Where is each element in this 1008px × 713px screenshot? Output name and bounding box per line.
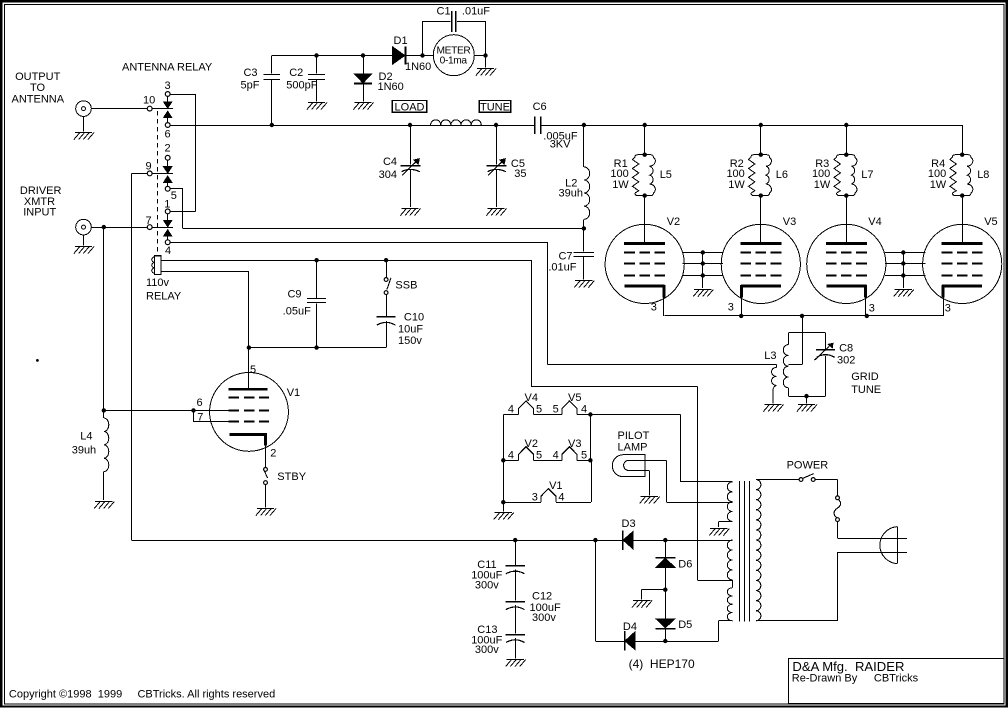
svg-text:5: 5 (536, 449, 542, 461)
svg-text:300v: 300v (475, 579, 499, 591)
svg-text:C8: C8 (839, 343, 853, 355)
svg-text:7: 7 (146, 215, 152, 227)
svg-text:(4) HEP170: (4) HEP170 (629, 657, 695, 671)
svg-text:INPUT: INPUT (23, 207, 56, 219)
svg-text:7: 7 (197, 411, 203, 423)
svg-text:1N60: 1N60 (405, 61, 431, 73)
svg-text:9: 9 (146, 160, 152, 172)
svg-text:100: 100 (928, 168, 946, 180)
svg-text:1W: 1W (930, 179, 947, 191)
svg-text:PILOT: PILOT (618, 430, 650, 442)
svg-text:300v: 300v (532, 612, 556, 624)
svg-text:V5: V5 (568, 392, 581, 404)
svg-text:C12: C12 (532, 591, 552, 603)
svg-text:4: 4 (508, 449, 514, 461)
svg-text:110v: 110v (146, 277, 170, 289)
svg-text:1: 1 (164, 198, 170, 210)
svg-text:1W: 1W (814, 179, 831, 191)
svg-text:D1: D1 (394, 35, 408, 47)
svg-text:5: 5 (581, 449, 587, 461)
svg-text:RELAY: RELAY (146, 291, 182, 303)
svg-text:Copyright ©1998 1999 CBTr: Copyright ©1998 1999 CBTricks. All right… (9, 688, 275, 700)
svg-text:3KV: 3KV (550, 139, 571, 151)
svg-text:SSB: SSB (395, 279, 417, 291)
svg-text:.01uF: .01uF (462, 5, 490, 17)
svg-text:D5: D5 (678, 619, 692, 631)
svg-text:4: 4 (165, 245, 171, 257)
svg-text:C9: C9 (287, 289, 301, 301)
svg-text:L6: L6 (776, 169, 788, 181)
svg-text:5: 5 (250, 364, 256, 376)
svg-text:STBY: STBY (277, 471, 306, 483)
svg-text:C3: C3 (243, 67, 257, 79)
svg-text:D6: D6 (678, 559, 692, 571)
svg-text:C2: C2 (289, 67, 303, 79)
svg-text:.01uF: .01uF (548, 261, 576, 273)
svg-text:500pF: 500pF (286, 80, 317, 92)
svg-text:CBTricks: CBTricks (874, 673, 919, 685)
svg-text:LOAD: LOAD (395, 101, 425, 113)
svg-text:4: 4 (558, 491, 564, 503)
svg-text:L4: L4 (80, 431, 92, 443)
svg-text:C10: C10 (404, 312, 424, 324)
svg-text:3: 3 (869, 303, 875, 315)
svg-text:6: 6 (196, 397, 202, 409)
svg-text:6: 6 (165, 129, 171, 141)
svg-text:1W: 1W (728, 179, 745, 191)
svg-text:V4: V4 (868, 216, 881, 228)
svg-text:V2: V2 (525, 438, 538, 450)
svg-text:V1: V1 (287, 387, 300, 399)
svg-text:L8: L8 (977, 169, 989, 181)
svg-text:C6: C6 (533, 101, 547, 113)
svg-text:1W: 1W (612, 179, 629, 191)
svg-text:GRID: GRID (851, 371, 879, 383)
svg-text:L3: L3 (764, 350, 776, 362)
svg-text:D3: D3 (622, 518, 636, 530)
svg-text:3: 3 (651, 301, 657, 313)
svg-text:300v: 300v (475, 644, 499, 656)
svg-text:2: 2 (165, 143, 171, 155)
svg-text:LAMP: LAMP (618, 442, 648, 454)
svg-text:V1: V1 (549, 480, 562, 492)
svg-text:OUTPUT: OUTPUT (15, 71, 61, 83)
svg-text:TO: TO (30, 82, 46, 94)
svg-text:C1: C1 (437, 5, 451, 17)
svg-text:3: 3 (532, 491, 538, 503)
svg-text:TUNE: TUNE (480, 101, 510, 113)
svg-text:39uh: 39uh (559, 188, 583, 200)
svg-text:L5: L5 (660, 169, 672, 181)
svg-text:5: 5 (553, 404, 559, 416)
svg-text:3: 3 (165, 80, 171, 92)
svg-text:.05uF: .05uF (283, 306, 311, 318)
svg-text:100: 100 (610, 168, 628, 180)
svg-text:39uh: 39uh (72, 444, 96, 456)
svg-text:100: 100 (812, 168, 830, 180)
svg-text:Re-Drawn By: Re-Drawn By (792, 673, 858, 685)
svg-text:V2: V2 (667, 216, 680, 228)
svg-text:3: 3 (728, 301, 734, 313)
svg-text:ANTENNA: ANTENNA (12, 93, 65, 105)
svg-text:TUNE: TUNE (851, 384, 881, 396)
svg-text:V3: V3 (783, 216, 796, 228)
svg-text:5pF: 5pF (241, 79, 260, 91)
svg-text:3: 3 (945, 302, 951, 314)
svg-text:10: 10 (143, 95, 155, 107)
svg-text:302: 302 (837, 355, 855, 367)
svg-text:C4: C4 (383, 156, 397, 168)
svg-text:5: 5 (171, 190, 177, 202)
svg-text:2: 2 (270, 448, 276, 460)
svg-text:150v: 150v (398, 335, 422, 347)
svg-text:V5: V5 (984, 216, 997, 228)
svg-text:V4: V4 (525, 392, 538, 404)
svg-text:4: 4 (508, 404, 514, 416)
svg-text:ANTENNA RELAY: ANTENNA RELAY (122, 61, 213, 73)
svg-text:35: 35 (514, 168, 526, 180)
svg-text:10uF: 10uF (398, 323, 423, 335)
svg-text:1N60: 1N60 (378, 81, 404, 93)
svg-text:5: 5 (536, 404, 542, 416)
svg-text:100: 100 (726, 168, 744, 180)
svg-text:POWER: POWER (787, 460, 829, 472)
svg-text:0-1ma: 0-1ma (440, 56, 468, 67)
svg-text:L7: L7 (861, 169, 873, 181)
svg-text:4: 4 (581, 404, 587, 416)
svg-text:V3: V3 (568, 438, 581, 450)
svg-text:4: 4 (553, 449, 559, 461)
svg-text:D4: D4 (623, 621, 637, 633)
svg-text:304: 304 (379, 169, 397, 181)
